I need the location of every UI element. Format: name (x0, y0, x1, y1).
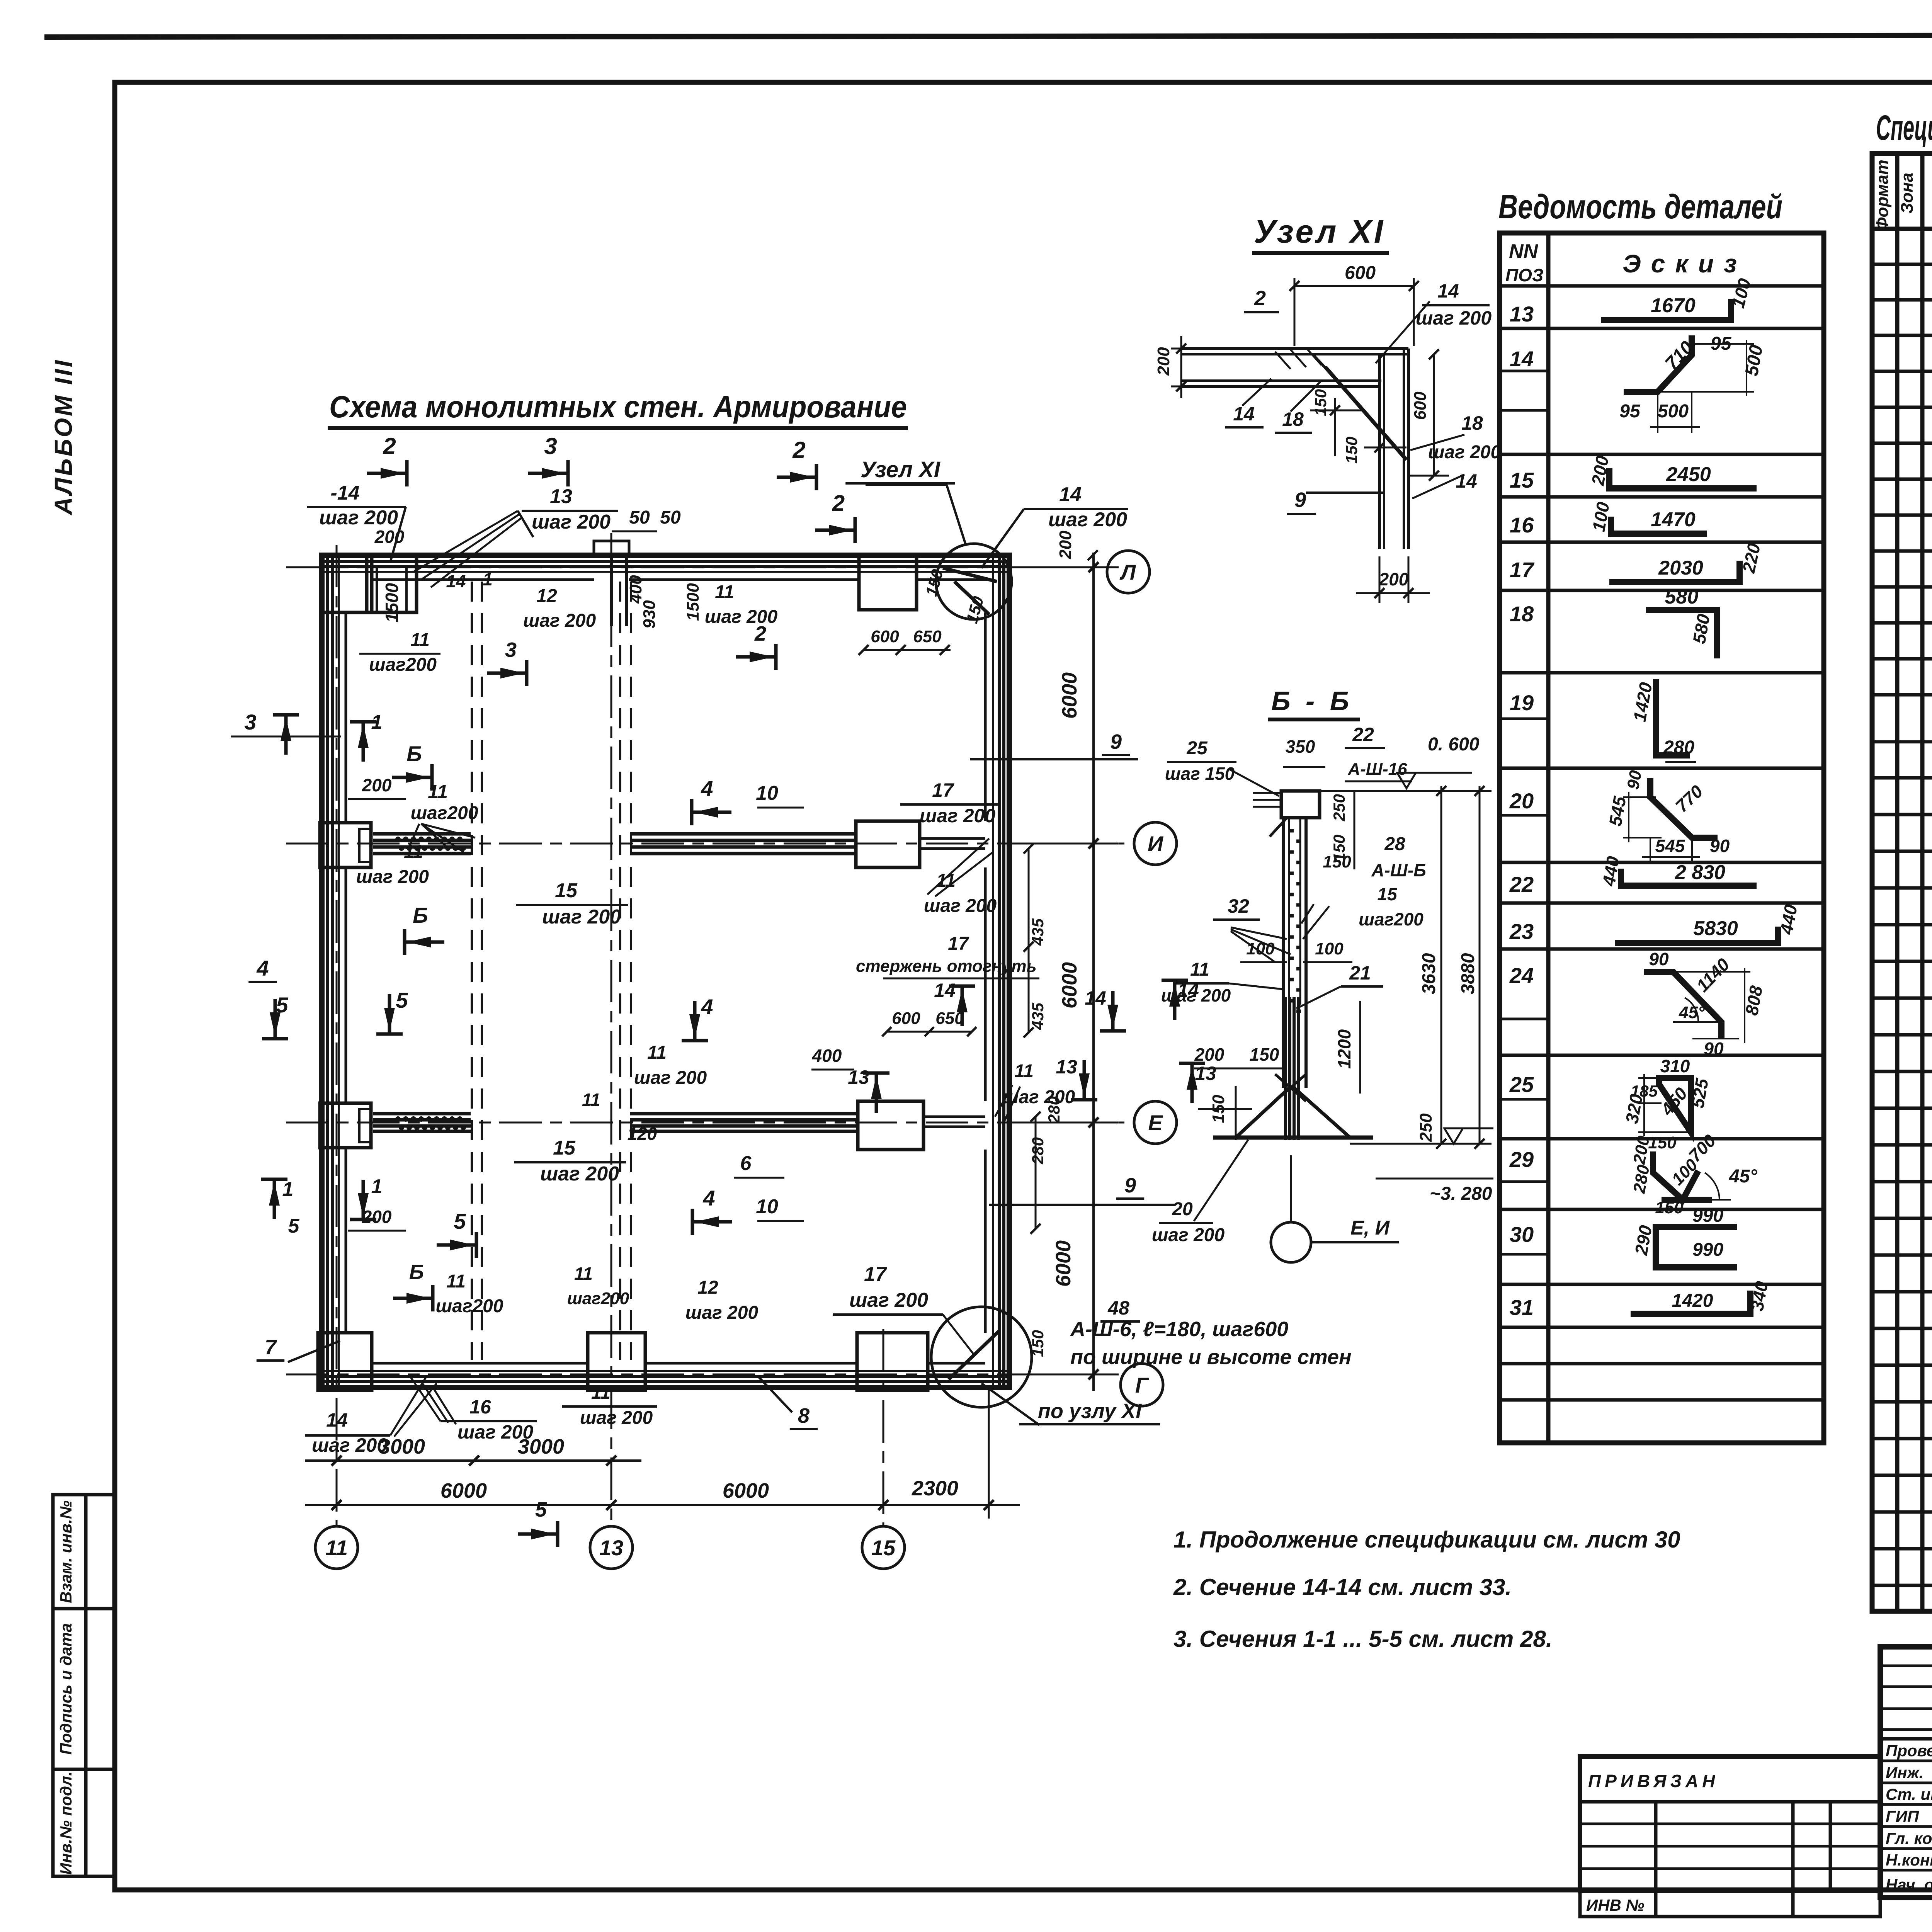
svg-text:150: 150 (1029, 1330, 1047, 1357)
svg-text:1420: 1420 (1629, 681, 1656, 723)
svg-text:11: 11 (647, 1043, 667, 1063)
plan outer walls (322, 555, 1009, 1388)
svg-text:200: 200 (1056, 531, 1075, 560)
svg-text:шаг200: шаг200 (435, 1296, 503, 1316)
svg-text:150: 150 (1655, 1198, 1684, 1217)
svg-text:ИНВ №: ИНВ № (1586, 1896, 1645, 1914)
svg-text:31: 31 (1510, 1295, 1534, 1320)
svg-text:15: 15 (1510, 468, 1534, 492)
uzel XI corner circle (936, 544, 1012, 619)
svg-text:2450: 2450 (1666, 463, 1711, 486)
svg-text:Ведомость деталей: Ведомость деталей (1498, 187, 1782, 226)
svg-text:90: 90 (1704, 1039, 1724, 1059)
svg-text:Проверил: Проверил (1886, 1742, 1932, 1760)
svg-text:280: 280 (1629, 1163, 1653, 1195)
svg-text:500: 500 (1658, 401, 1689, 422)
svg-text:24: 24 (1509, 963, 1534, 988)
svg-text:220: 220 (1738, 541, 1764, 575)
svg-text:22: 22 (1509, 872, 1534, 896)
svg-text:32: 32 (1228, 895, 1249, 917)
top pilaster B (859, 555, 917, 610)
sketch 13 (1601, 299, 1731, 320)
svg-text:25: 25 (1186, 738, 1208, 759)
svg-text:Зона: Зона (1898, 173, 1917, 214)
sketch 25 (1659, 1078, 1691, 1132)
svg-text:200: 200 (1194, 1044, 1225, 1065)
svg-text:500: 500 (1742, 344, 1767, 378)
bottom dimension line 6000/6000/2300 (305, 1504, 1020, 1506)
svg-text:3: 3 (244, 710, 256, 734)
svg-text:1500: 1500 (382, 583, 402, 622)
svg-text:12: 12 (697, 1277, 718, 1298)
svg-text:120: 120 (628, 1124, 657, 1144)
svg-text:95: 95 (1619, 401, 1641, 422)
svg-text:А-Ш-16: А-Ш-16 (1347, 760, 1407, 779)
svg-text:6: 6 (740, 1152, 752, 1175)
svg-text:11: 11 (591, 1383, 611, 1403)
svg-text:11: 11 (1014, 1061, 1034, 1082)
svg-text:шаг200: шаг200 (410, 803, 478, 823)
svg-text:шаг 200: шаг 200 (356, 867, 429, 887)
svg-text:200: 200 (1154, 347, 1173, 376)
svg-text:14: 14 (1059, 483, 1082, 506)
svg-text:150: 150 (1311, 389, 1330, 416)
svg-text:Б: Б (406, 742, 422, 766)
svg-text:6000: 6000 (723, 1479, 769, 1502)
beam rebar dots (395, 837, 401, 842)
svg-text:4: 4 (256, 956, 269, 980)
svg-text:~3. 280: ~3. 280 (1430, 1184, 1492, 1204)
svg-text:2. Сечение 14-14 см. лист 3: 2. Сечение 14-14 см. лист 33. (1173, 1574, 1512, 1600)
svg-text:30: 30 (1510, 1222, 1534, 1247)
svg-text:13: 13 (599, 1536, 623, 1560)
spec header texts (1873, 160, 1932, 338)
svg-text:290: 290 (1631, 1224, 1656, 1257)
svg-text:шаг 200: шаг 200 (532, 511, 611, 533)
svg-text:по ширине и высоте стен: по ширине и высоте стен (1070, 1345, 1352, 1369)
svg-text:200: 200 (374, 527, 405, 547)
svg-text:Формат: Формат (1873, 160, 1892, 231)
svg-text:280: 280 (1029, 1137, 1047, 1165)
svg-text:150: 150 (1342, 437, 1361, 464)
svg-text:150: 150 (1323, 852, 1351, 871)
svg-text:250: 250 (1330, 794, 1348, 821)
interior beam blocks right (856, 821, 920, 867)
svg-text:11: 11 (1190, 959, 1209, 980)
svg-text:Ст. инж.: Ст. инж. (1886, 1785, 1932, 1803)
svg-text:150: 150 (1250, 1044, 1279, 1065)
sketch 30 (1656, 1227, 1737, 1267)
svg-text:Узел XI: Узел XI (861, 457, 941, 482)
bottom pilaster axis15 (857, 1333, 928, 1390)
svg-text:14: 14 (446, 571, 466, 591)
spec table grid (1872, 153, 1932, 1611)
svg-text:шаг 200: шаг 200 (1416, 307, 1492, 329)
top pilaster A (367, 555, 417, 612)
svg-text:10: 10 (756, 1196, 778, 1218)
svg-text:50: 50 (660, 507, 681, 528)
svg-text:Н.контр.: Н.контр. (1886, 1851, 1932, 1869)
svg-text:25: 25 (1509, 1072, 1534, 1097)
svg-text:2 830: 2 830 (1675, 861, 1725, 884)
sketch 22 (1621, 869, 1757, 886)
sketch 24 (1644, 972, 1721, 1039)
svg-text:14: 14 (934, 980, 956, 1001)
svg-text:6000: 6000 (1058, 672, 1081, 719)
svg-text:19: 19 (1510, 690, 1534, 715)
svg-text:100: 100 (1246, 939, 1275, 958)
svg-text:600: 600 (1345, 263, 1376, 283)
svg-text:NN: NN (1509, 240, 1539, 263)
svg-text:100: 100 (1315, 939, 1344, 958)
svg-text:12: 12 (536, 586, 557, 606)
svg-text:8: 8 (798, 1404, 810, 1427)
svg-text:шаг 200: шаг 200 (1002, 1087, 1075, 1107)
sketch 29 (1653, 1151, 1698, 1200)
svg-text:ГИП: ГИП (1886, 1807, 1919, 1825)
svg-text:28: 28 (1384, 834, 1405, 854)
svg-text:11: 11 (715, 582, 734, 602)
svg-text:шаг200: шаг200 (567, 1289, 629, 1308)
svg-text:1420: 1420 (1672, 1291, 1713, 1311)
svg-text:600: 600 (1411, 391, 1430, 420)
svg-text:18: 18 (1461, 412, 1483, 434)
svg-text:2: 2 (792, 437, 805, 463)
svg-text:1140: 1140 (1692, 954, 1733, 996)
sketch 14 (1624, 335, 1692, 392)
svg-text:Подпись и дата: Подпись и дата (57, 1623, 75, 1755)
svg-text:Эскиз: Эскиз (1622, 249, 1747, 278)
svg-text:14: 14 (326, 1409, 348, 1431)
svg-text:Инв.№ подл.: Инв.№ подл. (57, 1771, 75, 1874)
svg-text:9: 9 (1294, 488, 1306, 512)
top notch at axis 13 (610, 555, 613, 626)
svg-text:9: 9 (1124, 1174, 1136, 1197)
svg-text:5: 5 (535, 1498, 547, 1521)
top-left corner pilaster (322, 555, 372, 612)
svg-text:2300: 2300 (912, 1477, 958, 1500)
axis circles (315, 551, 1177, 1569)
svg-text:2: 2 (383, 433, 396, 459)
svg-text:13: 13 (1510, 302, 1534, 326)
svg-text:шаг 200: шаг 200 (705, 607, 778, 627)
bottom-left corner pilaster (318, 1333, 372, 1390)
svg-text:7: 7 (265, 1336, 277, 1359)
svg-text:18: 18 (1510, 602, 1534, 626)
svg-text:545: 545 (1605, 794, 1630, 828)
left margin inventory boxes (53, 1495, 114, 1876)
svg-text:3: 3 (505, 638, 517, 662)
privyazan block (1580, 1757, 1880, 1917)
svg-text:18: 18 (1282, 408, 1304, 430)
svg-text:17: 17 (1510, 558, 1535, 582)
svg-text:9: 9 (1110, 730, 1122, 753)
svg-text:200: 200 (362, 775, 392, 795)
svg-text:320: 320 (1622, 1092, 1647, 1125)
sketch 23 (1615, 927, 1778, 943)
svg-text:100: 100 (1728, 276, 1755, 310)
svg-text:И: И (1148, 832, 1164, 856)
svg-text:650: 650 (935, 1009, 964, 1028)
svg-text:90: 90 (1649, 949, 1669, 969)
svg-text:16: 16 (1510, 513, 1534, 537)
svg-text:15: 15 (555, 879, 578, 902)
svg-text:22: 22 (1352, 724, 1374, 745)
svg-text:по узлу XI: по узлу XI (1038, 1400, 1142, 1423)
svg-text:200: 200 (362, 1207, 392, 1227)
svg-text:шаг 200: шаг 200 (542, 906, 621, 928)
svg-text:ПРИВЯЗАН: ПРИВЯЗАН (1588, 1771, 1719, 1791)
svg-text:Г: Г (1135, 1373, 1150, 1397)
svg-text:1. Продолжение спецификации: 1. Продолжение спецификации см. лист 30 (1173, 1527, 1680, 1553)
svg-text:3630: 3630 (1419, 953, 1439, 994)
svg-text:150: 150 (963, 594, 987, 625)
svg-text:Инж.: Инж. (1886, 1764, 1923, 1782)
svg-text:6000: 6000 (1052, 1240, 1075, 1287)
svg-text:20: 20 (1509, 789, 1534, 813)
beams row E (373, 1112, 471, 1116)
svg-text:1: 1 (371, 1175, 383, 1198)
svg-text:2: 2 (754, 622, 766, 645)
svg-text:16: 16 (469, 1396, 492, 1418)
svg-text:6000: 6000 (1058, 962, 1081, 1009)
vedomost header (1505, 240, 1747, 1320)
svg-text:11: 11 (428, 781, 448, 803)
svg-text:13: 13 (550, 485, 572, 508)
svg-text:шаг 200: шаг 200 (319, 507, 398, 529)
title block texts (1886, 1669, 1932, 1894)
svg-text:580: 580 (1689, 612, 1714, 645)
svg-text:280: 280 (1663, 737, 1694, 758)
svg-text:11: 11 (404, 842, 423, 862)
sketch 19 (1656, 679, 1690, 755)
svg-text:770: 770 (1672, 781, 1707, 816)
left wall pilaster I row (320, 823, 371, 867)
svg-text:15: 15 (871, 1536, 896, 1560)
dashed formwork lines (471, 582, 473, 1360)
svg-text:2: 2 (832, 491, 845, 516)
svg-text:600: 600 (892, 1009, 920, 1028)
svg-text:15: 15 (553, 1137, 576, 1159)
sketch 20 (1650, 778, 1718, 838)
sketch 15 (1609, 468, 1757, 488)
svg-text:13: 13 (1195, 1063, 1216, 1084)
svg-text:0. 600: 0. 600 (1428, 734, 1480, 755)
svg-text:шаг 200: шаг 200 (849, 1289, 928, 1311)
svg-text:50: 50 (629, 507, 650, 528)
svg-text:Схема монолитных стен. А: Схема монолитных стен. Армирование (329, 389, 907, 424)
rotated labels: Взам инв №, Подпись и дата, Инв № подл (57, 1500, 75, 1875)
svg-text:13: 13 (1056, 1056, 1077, 1078)
left wall pilaster E row (320, 1103, 371, 1148)
svg-text:11: 11 (582, 1090, 600, 1110)
svg-text:шаг 200: шаг 200 (1161, 985, 1231, 1005)
title block outer (1880, 1647, 1932, 1898)
svg-text:95: 95 (1711, 333, 1732, 354)
svg-text:Л: Л (1119, 560, 1136, 584)
svg-text:Гл. конст.: Гл. конст. (1886, 1829, 1932, 1847)
B-B section (1213, 786, 1492, 1149)
bottom dimension line 3000/3000 (305, 1459, 641, 1462)
svg-text:10: 10 (756, 782, 778, 804)
svg-text:150: 150 (1648, 1133, 1677, 1152)
svg-text:17: 17 (864, 1263, 887, 1286)
svg-text:шаг 200: шаг 200 (1048, 509, 1127, 531)
svg-text:17: 17 (932, 779, 954, 801)
sheet top edge (44, 35, 1932, 37)
svg-text:48: 48 (1107, 1297, 1129, 1319)
sketch 18 (1646, 610, 1717, 658)
sketch 31 (1631, 1291, 1750, 1314)
svg-text:11: 11 (446, 1271, 466, 1292)
svg-text:14: 14 (1437, 280, 1459, 302)
uzel XI detail (1171, 278, 1464, 603)
svg-text:11: 11 (325, 1536, 348, 1560)
svg-text:стержень отогнуть: стержень отогнуть (856, 957, 1037, 976)
bottom-right corner brace (949, 1331, 999, 1379)
svg-text:Поз: Поз (1930, 176, 1932, 207)
svg-text:шаг 200: шаг 200 (634, 1068, 707, 1088)
svg-text:шаг 200: шаг 200 (540, 1163, 619, 1185)
svg-text:350: 350 (1286, 736, 1315, 757)
svg-text:600: 600 (871, 627, 899, 646)
bottom pilaster axis13 (588, 1333, 645, 1390)
beams row I (373, 832, 471, 836)
svg-text:шаг 200: шаг 200 (685, 1303, 759, 1323)
svg-text:21: 21 (1349, 962, 1371, 984)
svg-text:650: 650 (913, 627, 942, 646)
svg-text:2: 2 (1254, 287, 1266, 310)
svg-text:5: 5 (288, 1215, 300, 1237)
svg-text:3. Сечения 1-1 ... 5-5 см.: 3. Сечения 1-1 ... 5-5 см. лист 28. (1173, 1626, 1552, 1652)
svg-text:шаг 150: шаг 150 (1165, 764, 1235, 784)
svg-text:14: 14 (1085, 987, 1106, 1009)
vedomost grid (1500, 233, 1824, 1443)
svg-text:3880: 3880 (1458, 953, 1478, 994)
svg-text:шаг 200: шаг 200 (1152, 1225, 1225, 1245)
svg-text:45°: 45° (1679, 1003, 1705, 1022)
svg-text:5: 5 (454, 1209, 466, 1233)
svg-text:-14: -14 (330, 482, 359, 504)
svg-text:5830: 5830 (1693, 917, 1738, 940)
svg-text:шаг200: шаг200 (369, 655, 437, 675)
svg-text:Б: Б (413, 903, 428, 927)
svg-text:1: 1 (282, 1178, 294, 1201)
svg-text:А-Ш-Б: А-Ш-Б (1371, 860, 1426, 880)
svg-text:Е: Е (1148, 1111, 1163, 1135)
svg-text:шаг 200: шаг 200 (1428, 442, 1501, 463)
svg-text:Взам. инв.№: Взам. инв.№ (57, 1500, 75, 1603)
svg-text:шаг200: шаг200 (1359, 909, 1423, 929)
svg-text:1470: 1470 (1651, 509, 1696, 531)
svg-text:13: 13 (848, 1066, 869, 1088)
svg-text:280: 280 (1045, 1096, 1063, 1124)
svg-text:А-Ш-6, ℓ=180, шаг600: А-Ш-6, ℓ=180, шаг600 (1070, 1318, 1288, 1341)
svg-text:5: 5 (396, 988, 408, 1012)
svg-text:11: 11 (574, 1264, 593, 1284)
svg-text:20: 20 (1172, 1199, 1193, 1219)
svg-text:АЛЬБОМ III: АЛЬБОМ III (49, 359, 77, 516)
svg-text:990: 990 (1692, 1206, 1723, 1226)
svg-text:ПОЗ: ПОЗ (1505, 265, 1543, 285)
svg-text:45°: 45° (1729, 1166, 1757, 1187)
svg-text:200: 200 (1379, 569, 1409, 589)
svg-text:14: 14 (1510, 347, 1534, 371)
svg-text:400: 400 (812, 1046, 842, 1066)
svg-text:990: 990 (1692, 1240, 1723, 1260)
svg-text:90: 90 (1624, 769, 1646, 791)
right dimension line (1092, 553, 1095, 1391)
svg-text:Нач. отд: Нач. отд (1886, 1876, 1932, 1894)
sketch 17 (1609, 561, 1740, 582)
svg-text:1: 1 (483, 569, 493, 589)
svg-text:435: 435 (1029, 918, 1047, 946)
svg-text:шаг 200: шаг 200 (580, 1408, 653, 1428)
svg-text:шаг 200: шаг 200 (312, 1434, 388, 1456)
svg-text:Спецификация монолитных стен,: Спецификация монолитных стен, обвязочных… (1876, 108, 1932, 148)
svg-text:1670: 1670 (1651, 294, 1696, 317)
svg-text:Узел XI: Узел XI (1254, 213, 1385, 250)
svg-text:6000: 6000 (440, 1479, 487, 1502)
svg-text:4: 4 (701, 995, 713, 1019)
svg-text:Е, И: Е, И (1350, 1217, 1390, 1239)
svg-text:15: 15 (1377, 884, 1398, 904)
svg-text:4: 4 (701, 776, 713, 801)
svg-text:11: 11 (410, 630, 430, 650)
svg-text:шаг 200: шаг 200 (457, 1421, 533, 1443)
sketch 16 (1611, 517, 1707, 534)
svg-text:4: 4 (702, 1186, 715, 1210)
svg-text:шаг 200: шаг 200 (924, 896, 997, 916)
svg-text:580: 580 (1665, 586, 1699, 608)
svg-text:23: 23 (1509, 919, 1534, 944)
svg-text:Б: Б (409, 1260, 424, 1284)
svg-text:435: 435 (1029, 1002, 1047, 1030)
svg-text:90: 90 (1710, 836, 1730, 856)
top-right corner brace (943, 568, 997, 582)
svg-text:545: 545 (1655, 836, 1685, 856)
svg-text:шаг 200: шаг 200 (523, 611, 596, 631)
svg-text:2030: 2030 (1658, 557, 1703, 579)
svg-text:1500: 1500 (684, 583, 702, 621)
svg-text:29: 29 (1509, 1147, 1534, 1172)
svg-text:Б - Б: Б - Б (1271, 686, 1353, 716)
svg-text:930: 930 (640, 600, 659, 629)
axis centerlines (286, 566, 1097, 568)
svg-text:440: 440 (1776, 903, 1801, 936)
dimension texts bottom (379, 672, 1081, 1502)
svg-text:310: 310 (1660, 1056, 1690, 1076)
svg-text:14: 14 (1456, 470, 1477, 492)
svg-text:14: 14 (1233, 403, 1255, 425)
svg-text:17: 17 (948, 934, 969, 954)
svg-text:3: 3 (544, 433, 557, 459)
svg-text:400: 400 (626, 575, 645, 604)
svg-text:1200: 1200 (1334, 1029, 1354, 1069)
svg-text:250: 250 (1417, 1113, 1435, 1142)
svg-text:шаг 200: шаг 200 (920, 805, 995, 827)
